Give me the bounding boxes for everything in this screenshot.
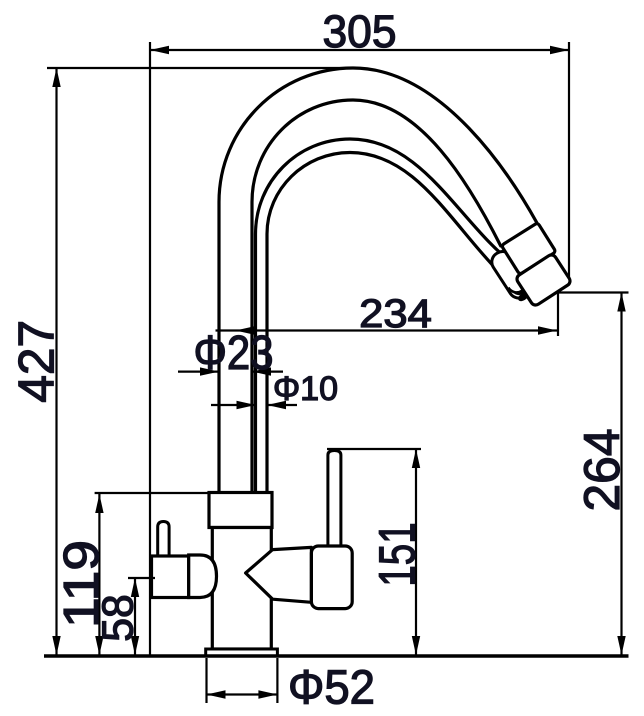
ext line top of 151: [327, 448, 421, 450]
dim line 305: [150, 49, 569, 51]
filter small tube inner edge: [267, 153, 500, 494]
arrow 151 bottom: [412, 636, 420, 655]
arrow 264 bottom: [617, 636, 625, 655]
svg-text:234: 234: [359, 292, 432, 336]
dim line 264: [620, 293, 622, 656]
ext line phi52 left: [205, 658, 207, 703]
left handle body: [152, 556, 189, 598]
arrow 119 top: [95, 494, 103, 513]
arrow phi10 right: [267, 401, 286, 409]
arrow 264 top: [617, 293, 625, 312]
arrow 234 left: [236, 326, 255, 334]
arrow 234 right: [538, 326, 557, 334]
svg-text:427: 427: [9, 320, 65, 403]
right handle cone: [246, 547, 312, 602]
arrow phi23 right: [252, 367, 271, 375]
svg-text:Φ10: Φ10: [273, 370, 338, 408]
dim line 119: [98, 494, 100, 655]
svg-text:151: 151: [369, 522, 426, 586]
dim line 58: [134, 578, 136, 655]
spout end cap: [515, 253, 572, 307]
right handle grip: [311, 546, 352, 609]
filter small tube outer edge: [256, 139, 517, 493]
arrow 427 top: [52, 68, 60, 87]
spout big tube inner edge: [252, 100, 501, 493]
dim line phi10 left segment: [211, 404, 256, 406]
base plate: [206, 649, 278, 656]
arrow 427 bottom: [52, 636, 60, 655]
dim line phi23 right segment: [252, 371, 283, 373]
ext line left of 305 (tangent to handle): [149, 42, 151, 655]
ext line phi52 right: [276, 658, 278, 703]
arrow 151 top: [412, 449, 420, 468]
arrow phi10 left: [237, 401, 256, 409]
dim line 151: [415, 449, 417, 655]
dim line 427: [55, 68, 57, 655]
svg-text:Φ23: Φ23: [194, 327, 274, 380]
aerator outlet dot: [516, 291, 529, 303]
arrow 58 bottom: [131, 636, 139, 655]
arrow 305 right: [550, 46, 569, 54]
body column: [212, 528, 271, 650]
small tube outlet capsule: [488, 248, 533, 302]
right handle rod: [328, 451, 341, 549]
arrow 305 left: [150, 46, 169, 54]
ext line top of 427: [47, 67, 350, 69]
aerator arcs on capsule end: [508, 278, 530, 298]
arrow phi23 left: [200, 367, 219, 375]
svg-text:305: 305: [323, 6, 397, 57]
arrow phi52 right: [258, 690, 277, 698]
mounting baseline: [44, 654, 629, 658]
left handle lever stick: [158, 522, 169, 558]
arrow 58 top: [131, 578, 139, 597]
left handle end cap (D shape): [189, 555, 217, 598]
arrow 119 bottom: [95, 636, 103, 655]
spout big tube outer edge: [219, 68, 537, 493]
ext line right of 234: [557, 293, 559, 337]
arrow phi52 left: [207, 690, 226, 698]
dim line phi52: [207, 693, 278, 695]
body top flange: [209, 493, 272, 528]
ext line top of 264: [559, 291, 629, 293]
svg-text:58: 58: [94, 594, 143, 642]
dim line phi23 left segment: [178, 371, 219, 373]
ext line top of 119: [95, 492, 209, 494]
ext line top of 58: [128, 577, 155, 579]
spout collar block: [501, 223, 556, 275]
ext line right of 305 (spout tip): [568, 42, 570, 279]
svg-text:264: 264: [574, 429, 630, 512]
dim line 234: [216, 329, 558, 331]
svg-text:Φ52: Φ52: [288, 662, 375, 715]
dim line phi10 right segment: [267, 404, 297, 406]
